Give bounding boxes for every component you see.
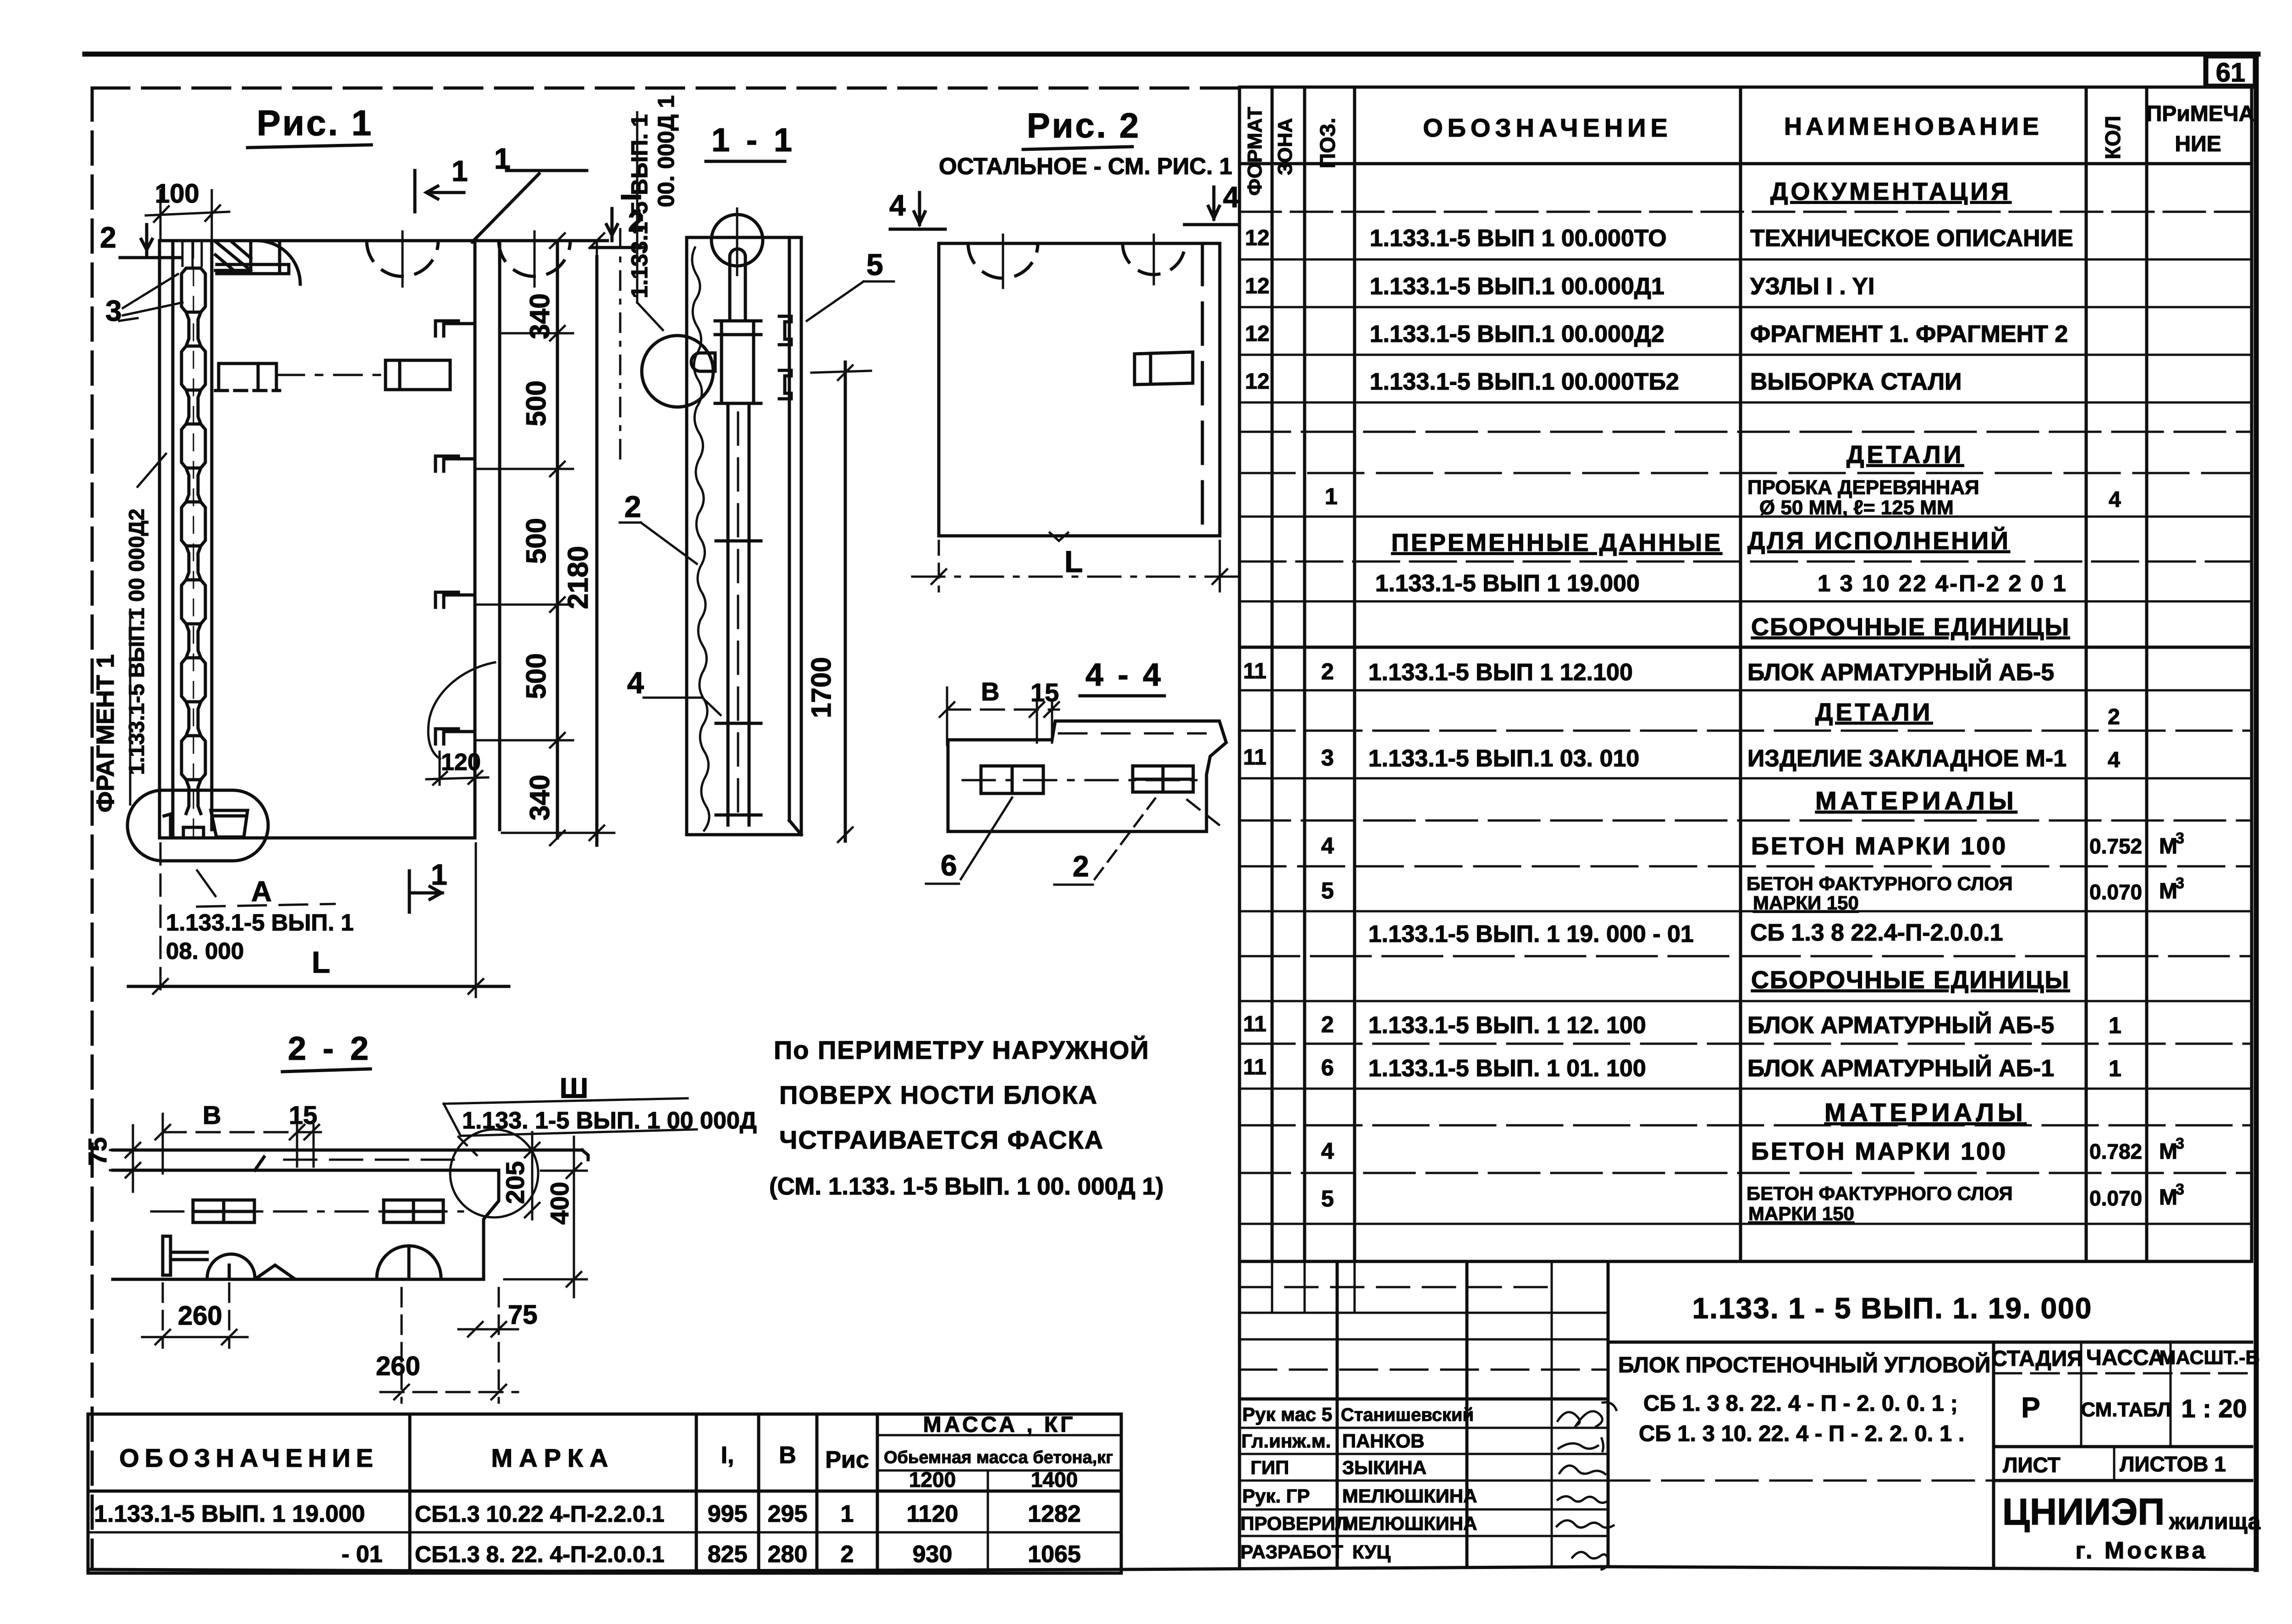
svg-text:г. Москва: г. Москва <box>2076 1537 2208 1564</box>
svg-text:По ПЕРИМЕТРУ НАРУЖНОЙ: По ПЕРИМЕТРУ НАРУЖНОЙ <box>774 1035 1150 1064</box>
svg-text:СБ1.3 8. 22. 4-П-2.0.0.1: СБ1.3 8. 22. 4-П-2.0.0.1 <box>415 1541 664 1567</box>
section 2-2 left anchor <box>163 1236 293 1278</box>
section 4-4 body <box>948 721 1226 831</box>
svg-text:ЗОНА: ЗОНА <box>1274 118 1296 176</box>
svg-text:ПРОВЕРИЛ: ПРОВЕРИЛ <box>1240 1513 1349 1534</box>
svg-text:L: L <box>1064 545 1083 578</box>
fig1 overall 2180 dim <box>502 233 614 845</box>
svg-text:2: 2 <box>1321 659 1334 684</box>
svg-text:СТАДИЯ: СТАДИЯ <box>1991 1347 2083 1371</box>
svg-text:11: 11 <box>1243 745 1267 770</box>
svg-text:4: 4 <box>1321 1138 1334 1164</box>
fig1 section mark 2 left <box>100 221 180 258</box>
svg-text:СБОРОЧНЫЕ ЕДИНИЦЫ: СБОРОЧНЫЕ ЕДИНИЦЫ <box>1751 613 2070 641</box>
svg-text:ФОРМАТ: ФОРМАТ <box>1244 107 1266 196</box>
sheet number box 61 <box>2206 56 2255 88</box>
svg-text:0.782: 0.782 <box>2089 1140 2142 1163</box>
svg-text:КУЦ: КУЦ <box>1352 1541 1391 1563</box>
svg-text:100: 100 <box>155 179 199 209</box>
svg-text:280: 280 <box>768 1541 808 1568</box>
svg-text:12: 12 <box>1245 322 1269 346</box>
fig1 embedded plates mid <box>215 360 450 391</box>
spec table outer frame <box>1240 87 2252 1261</box>
svg-text:ПРОБКА ДЕРЕВЯННАЯ: ПРОБКА ДЕРЕВЯННАЯ <box>1747 476 1979 499</box>
svg-text:ТЕХНИЧЕСКОЕ ОПИСАНИЕ: ТЕХНИЧЕСКОЕ ОПИСАНИЕ <box>1750 225 2073 252</box>
svg-text:1.133.1-5 ВЫП. 1: 1.133.1-5 ВЫП. 1 <box>627 114 652 298</box>
svg-text:БЛОК ПРОСТЕНОЧНЫЙ УГЛОВОЙ: БЛОК ПРОСТЕНОЧНЫЙ УГЛОВОЙ <box>1618 1352 1990 1377</box>
svg-text:МАССА , КГ: МАССА , КГ <box>923 1413 1076 1437</box>
svg-text:1.133.1-5 ВЫП. 1 19.000: 1.133.1-5 ВЫП. 1 19.000 <box>94 1501 365 1527</box>
svg-text:ИЗДЕЛИЕ ЗАКЛАДНОЕ М-1: ИЗДЕЛИЕ ЗАКЛАДНОЕ М-1 <box>1747 745 2066 772</box>
svg-text:500: 500 <box>521 653 551 699</box>
svg-text:11: 11 <box>1243 659 1267 683</box>
section 4-4 title <box>1080 657 1164 696</box>
section 2-2 node circle <box>450 1129 538 1217</box>
svg-text:ПЕРЕМЕННЫЕ ДАННЫЕ: ПЕРЕМЕННЫЕ ДАННЫЕ <box>1391 529 1722 556</box>
fig1 section mark 1 bottom <box>409 858 447 912</box>
svg-text:Рис. 1: Рис. 1 <box>257 103 373 143</box>
fig1 baluster chain (decorative face joints) <box>182 242 205 838</box>
title block left grid <box>1240 1261 1608 1567</box>
svg-text:- 01: - 01 <box>342 1541 383 1568</box>
svg-text:1.133.1-5 ВЫП. 1 19. 000 - 0: 1.133.1-5 ВЫП. 1 19. 000 - 01 <box>1368 921 1694 947</box>
svg-text:1: 1 <box>1325 484 1338 509</box>
svg-text:5: 5 <box>1321 1186 1334 1211</box>
svg-text:М: М <box>2159 1185 2177 1210</box>
section 2-2 node III flag <box>444 1073 757 1155</box>
svg-text:2: 2 <box>100 221 116 254</box>
svg-text:Рук. ГР: Рук. ГР <box>1242 1485 1310 1507</box>
svg-text:ПОЗ.: ПОЗ. <box>1316 118 1339 168</box>
svg-text:МЕЛЮШКИНА: МЕЛЮШКИНА <box>1342 1513 1477 1534</box>
section 1-1 rotated callout text <box>627 95 679 330</box>
svg-text:4: 4 <box>1321 833 1334 859</box>
fig1 block outline <box>160 241 607 838</box>
svg-text:МАРКИ 150: МАРКИ 150 <box>1748 1203 1854 1224</box>
title block staff labels <box>1240 1404 1477 1563</box>
fig2 section mark 4 right <box>1185 181 1240 225</box>
page bottom border <box>89 1567 2256 1571</box>
svg-text:ВЫБОРКА СТАЛИ: ВЫБОРКА СТАЛИ <box>1750 369 1962 395</box>
svg-text:1282: 1282 <box>1028 1501 1081 1527</box>
fig1 section mark 2 right <box>591 206 645 248</box>
section 4-4 dims B and 15 <box>940 677 1059 745</box>
svg-text:В: В <box>203 1101 221 1129</box>
svg-text:4: 4 <box>1223 181 1240 214</box>
svg-text:В: В <box>981 677 999 706</box>
svg-text:400: 400 <box>545 1182 574 1224</box>
svg-text:МАТЕРИАЛЫ: МАТЕРИАЛЫ <box>1824 1098 2027 1127</box>
svg-text:1 - 1: 1 - 1 <box>711 122 796 159</box>
title block big number cell <box>1608 1292 2252 1342</box>
spec table row texts <box>1243 178 2184 1224</box>
svg-text:4: 4 <box>2108 748 2120 772</box>
svg-text:08. 000: 08. 000 <box>166 938 244 964</box>
svg-text:МАРКА: МАРКА <box>491 1443 614 1472</box>
note text block <box>769 1035 1164 1200</box>
svg-text:3: 3 <box>2176 1135 2184 1152</box>
svg-text:340: 340 <box>524 775 555 820</box>
svg-text:295: 295 <box>768 1501 808 1527</box>
svg-text:СБ 1. 3 8. 22. 4 - П - 2. 0.: СБ 1. 3 8. 22. 4 - П - 2. 0. 0. 1 ; <box>1643 1391 1958 1416</box>
fig1 corner detail top <box>215 242 289 274</box>
svg-text:11: 11 <box>1243 1012 1267 1036</box>
svg-text:2: 2 <box>1073 850 1089 883</box>
svg-text:ЧАССА: ЧАССА <box>2086 1346 2164 1370</box>
svg-text:1.133.1-5 ВЫП. 1 12. 100: 1.133.1-5 ВЫП. 1 12. 100 <box>1368 1012 1646 1039</box>
svg-text:1400: 1400 <box>1031 1468 1078 1492</box>
fig1 fragment rotated labels <box>92 454 166 813</box>
signatures <box>1557 1402 1616 1569</box>
svg-text:СБОРОЧНЫЕ ЕДИНИЦЫ: СБОРОЧНЫЕ ЕДИНИЦЫ <box>1751 966 2070 994</box>
bottom table texts <box>94 1413 1113 1568</box>
svg-text:1 : 20: 1 : 20 <box>2181 1394 2247 1423</box>
svg-text:L: L <box>312 945 330 979</box>
section 2-2 right anchor <box>377 1246 441 1278</box>
page top border <box>85 52 2258 57</box>
svg-text:1065: 1065 <box>1028 1541 1081 1568</box>
svg-text:Р: Р <box>2021 1392 2040 1424</box>
page left dashed border <box>91 88 94 1569</box>
fig1 dim L bottom <box>128 843 509 997</box>
fig1 dimension 100 top left <box>146 179 229 238</box>
svg-text:12: 12 <box>1245 369 1269 394</box>
svg-text:2: 2 <box>841 1541 854 1568</box>
svg-text:ЧСТРАИВАЕТСЯ ФАСКА: ЧСТРАИВАЕТСЯ ФАСКА <box>779 1125 1104 1154</box>
fig1 dim chain right (340/500/500/500/340) <box>477 233 573 845</box>
section 2-2 panel profile <box>113 1150 588 1279</box>
section 1-1 inner bars <box>716 403 761 825</box>
svg-text:СМ.ТАБЛ: СМ.ТАБЛ <box>2081 1398 2171 1421</box>
svg-text:2: 2 <box>2108 705 2120 729</box>
svg-text:БЛОК АРМАТУРНЫЙ АБ-1: БЛОК АРМАТУРНЫЙ АБ-1 <box>1747 1055 2054 1082</box>
svg-text:РАЗРАБОТ: РАЗРАБОТ <box>1240 1541 1343 1563</box>
svg-text:1.133.1-5 ВЫП. 1 01. 100: 1.133.1-5 ВЫП. 1 01. 100 <box>1368 1055 1646 1082</box>
svg-text:0.752: 0.752 <box>2089 834 2142 858</box>
svg-text:ЗЫКИНА: ЗЫКИНА <box>1342 1457 1427 1478</box>
svg-text:ЛИСТОВ 1: ЛИСТОВ 1 <box>2120 1452 2226 1476</box>
fig1 section marks 1 top <box>415 142 587 242</box>
svg-text:Рис: Рис <box>825 1447 869 1473</box>
svg-text:3: 3 <box>2176 875 2184 892</box>
svg-text:ЦНИИЭП: ЦНИИЭП <box>2002 1491 2165 1533</box>
svg-text:СБ 1. 3 10. 22. 4 - П - 2. 2.: СБ 1. 3 10. 22. 4 - П - 2. 2. 0. 1 . <box>1639 1421 1965 1446</box>
svg-text:12: 12 <box>1245 226 1269 250</box>
fig1 title <box>248 103 373 148</box>
svg-text:НАИМЕНОВАНИЕ: НАИМЕНОВАНИЕ <box>1784 113 2043 140</box>
svg-text:ДЛЯ ИСПОЛНЕНИЙ: ДЛЯ ИСПОЛНЕНИЙ <box>1747 527 2010 555</box>
svg-text:500: 500 <box>521 380 551 426</box>
bottom table frame <box>88 1414 1121 1573</box>
svg-text:1: 1 <box>452 154 468 187</box>
svg-text:ПРиМЕЧА: ПРиМЕЧА <box>2146 102 2254 126</box>
svg-text:ГИП: ГИП <box>1251 1457 1289 1478</box>
svg-text:ОБОЗНАЧЕНИЕ: ОБОЗНАЧЕНИЕ <box>1423 113 1672 142</box>
svg-text:4: 4 <box>627 666 644 699</box>
svg-text:260: 260 <box>376 1351 420 1381</box>
svg-text:1.133.1-5 ВЫП. 1: 1.133.1-5 ВЫП. 1 <box>166 909 354 936</box>
page right border <box>2254 54 2259 1569</box>
section 2-2 title <box>282 1030 372 1072</box>
fig1 node A oval callout <box>127 790 354 964</box>
svg-text:2: 2 <box>1321 1012 1334 1037</box>
svg-text:1: 1 <box>431 858 447 891</box>
svg-text:ПОВЕРХ НОСТИ БЛОКА: ПОВЕРХ НОСТИ БЛОКА <box>779 1080 1098 1109</box>
section 1-1 label 5 <box>807 248 894 321</box>
svg-text:Ø 50 ММ, ℓ= 125 ММ: Ø 50 ММ, ℓ= 125 ММ <box>1759 496 1954 519</box>
svg-text:МАСШТ.-Б: МАСШТ.-Б <box>2160 1347 2260 1369</box>
svg-text:1.133.1-5 ВЫП.1 00.000Д1: 1.133.1-5 ВЫП.1 00.000Д1 <box>1370 273 1664 300</box>
svg-text:СБ1.3 10.22 4-П-2.2.0.1: СБ1.3 10.22 4-П-2.2.0.1 <box>415 1501 664 1527</box>
svg-text:825: 825 <box>708 1541 748 1568</box>
svg-text:1700: 1700 <box>806 657 837 718</box>
svg-text:ФРАГМЕНТ 1: ФРАГМЕНТ 1 <box>92 655 119 813</box>
svg-text:1200: 1200 <box>909 1468 956 1492</box>
svg-text:Ι,: Ι, <box>721 1442 734 1469</box>
svg-text:М: М <box>2159 1140 2177 1164</box>
svg-text:БЕТОН МАРКИ 100: БЕТОН МАРКИ 100 <box>1751 832 2007 860</box>
svg-text:6: 6 <box>941 849 957 882</box>
svg-text:УЗЛЫ Ι . ΥΙ: УЗЛЫ Ι . ΥΙ <box>1750 273 1874 300</box>
svg-text:12: 12 <box>1245 274 1269 298</box>
fig1 dim 120 at bottom rib <box>426 662 495 785</box>
svg-text:4 - 4: 4 - 4 <box>1085 657 1163 693</box>
svg-text:Обьемная масса бетона,кг: Обьемная масса бетона,кг <box>884 1448 1113 1467</box>
svg-text:4: 4 <box>2109 488 2121 512</box>
fig1 label 3 with leaders <box>105 274 182 327</box>
fig2 dim L <box>912 533 1247 591</box>
section 1-1 label 4 <box>627 666 721 715</box>
svg-text:жилища: жилища <box>2169 1508 2261 1534</box>
section 1-1 node circle <box>642 336 713 407</box>
spec table header texts <box>1244 102 2254 196</box>
section 2-2 dims B 15 75 <box>83 1101 321 1192</box>
svg-text:1.133.1-5 ВЫП.1 00 000Д2: 1.133.1-5 ВЫП.1 00 000Д2 <box>124 508 149 775</box>
svg-text:БЕТОН МАРКИ 100: БЕТОН МАРКИ 100 <box>1751 1138 2007 1165</box>
fig2 title <box>939 106 1232 179</box>
fig2 section mark 4 left <box>889 189 945 229</box>
svg-text:БЛОК АРМАТУРНЫЙ АБ-5: БЛОК АРМАТУРНЫЙ АБ-5 <box>1747 659 2054 686</box>
svg-text:3: 3 <box>2176 830 2184 847</box>
svg-text:МАТЕРИАЛЫ: МАТЕРИАЛЫ <box>1815 786 2017 815</box>
svg-text:260: 260 <box>178 1301 222 1331</box>
svg-text:61: 61 <box>2216 58 2246 88</box>
section 2-2 dims 260 75 205 400 <box>142 1132 587 1403</box>
svg-text:3: 3 <box>1321 745 1334 771</box>
section 1-1 label 2 <box>620 490 697 564</box>
svg-text:340: 340 <box>524 293 555 339</box>
svg-text:1.133.1-5 ВЫП 1 12.100: 1.133.1-5 ВЫП 1 12.100 <box>1368 659 1633 686</box>
svg-text:1.133.1-5 ВЫП.1 03. 010: 1.133.1-5 ВЫП.1 03. 010 <box>1368 745 1639 772</box>
title block outer <box>1240 1261 2252 1567</box>
svg-text:М: М <box>2159 879 2177 903</box>
section 4-4 labels 6 and 2 <box>926 798 1155 885</box>
svg-text:5: 5 <box>1321 878 1334 903</box>
fig1 top arcs (lifting loops hidden) <box>257 231 570 286</box>
svg-text:КОЛ: КОЛ <box>2101 116 2125 160</box>
svg-text:ОСТАЛЬНОЕ - СМ. РИС. 1: ОСТАЛЬНОЕ - СМ. РИС. 1 <box>939 153 1232 179</box>
spec table row lines <box>1240 212 2252 1224</box>
svg-text:ФРАГМЕНТ 1. ФРАГМЕНТ 2: ФРАГМЕНТ 1. ФРАГМЕНТ 2 <box>1750 321 2068 347</box>
svg-text:11: 11 <box>1243 1055 1267 1079</box>
svg-text:(СМ. 1.133. 1-5 ВЫП. 1 00.: (СМ. 1.133. 1-5 ВЫП. 1 00. 000Д 1) <box>769 1173 1164 1200</box>
svg-text:Станишевский: Станишевский <box>1341 1405 1474 1425</box>
svg-text:1: 1 <box>841 1501 854 1527</box>
svg-text:ЛИСТ: ЛИСТ <box>2003 1453 2061 1477</box>
svg-text:ОБОЗНАЧЕНИЕ: ОБОЗНАЧЕНИЕ <box>119 1443 379 1472</box>
svg-text:НИЕ: НИЕ <box>2175 132 2221 156</box>
svg-text:А: А <box>251 876 272 908</box>
svg-text:ПАНКОВ: ПАНКОВ <box>1342 1430 1424 1452</box>
svg-text:1.133.1-5 ВЫП.1 00.000Д2: 1.133.1-5 ВЫП.1 00.000Д2 <box>1370 321 1664 347</box>
svg-text:МЕЛЮШКИНА: МЕЛЮШКИНА <box>1342 1485 1477 1507</box>
section 1-1 title <box>706 122 796 161</box>
svg-text:Гл.инж.м.: Гл.инж.м. <box>1241 1430 1331 1452</box>
title cell: name <box>1608 1352 1994 1481</box>
spec table column lines <box>1272 87 2147 1261</box>
svg-text:75: 75 <box>508 1300 538 1330</box>
section 1-1 lifting loop <box>711 209 763 321</box>
svg-text:1.133.1-5 ВЫП 1 19.000: 1.133.1-5 ВЫП 1 19.000 <box>1375 570 1640 597</box>
svg-text:БЕТОН ФАКТУРНОГО СЛОЯ: БЕТОН ФАКТУРНОГО СЛОЯ <box>1747 873 2013 894</box>
drawing area top dashed border <box>92 87 1240 90</box>
svg-text:2 - 2: 2 - 2 <box>288 1030 372 1067</box>
section 1-1 body outline <box>687 237 801 835</box>
fig2 body <box>939 235 1220 536</box>
section 2-2 embedded plates <box>151 1200 463 1222</box>
svg-text:ДОКУМЕНТАЦИЯ: ДОКУМЕНТАЦИЯ <box>1770 178 2011 205</box>
svg-text:995: 995 <box>708 1501 748 1527</box>
svg-text:3: 3 <box>2176 1181 2184 1198</box>
svg-text:М: М <box>2159 834 2177 859</box>
section 1-1 embed assembly <box>691 316 791 403</box>
svg-text:МАРКИ 150: МАРКИ 150 <box>1753 892 1859 914</box>
svg-text:4: 4 <box>889 189 906 222</box>
svg-text:1: 1 <box>2109 1013 2121 1038</box>
svg-text:БЕТОН ФАКТУРНОГО СЛОЯ: БЕТОН ФАКТУРНОГО СЛОЯ <box>1747 1183 2013 1204</box>
svg-text:СБ 1.3 8 22.4-П-2.0.0.1: СБ 1.3 8 22.4-П-2.0.0.1 <box>1750 919 2003 946</box>
svg-text:1.133. 1 - 5 ВЫП. 1. 19. 0: 1.133. 1 - 5 ВЫП. 1. 19. 000 <box>1692 1292 2093 1325</box>
svg-text:6: 6 <box>1321 1055 1334 1080</box>
svg-text:930: 930 <box>913 1541 953 1568</box>
svg-text:Рук мас 5: Рук мас 5 <box>1242 1404 1332 1425</box>
svg-text:1120: 1120 <box>907 1501 959 1527</box>
svg-text:5: 5 <box>866 248 883 281</box>
svg-text:ДЕТАЛИ: ДЕТАЛИ <box>1815 699 1933 726</box>
svg-text:00. 000Д 1: 00. 000Д 1 <box>653 95 679 207</box>
svg-text:ДЕТАЛИ: ДЕТАЛИ <box>1846 441 1964 468</box>
svg-text:2180: 2180 <box>562 546 594 609</box>
svg-text:3: 3 <box>105 294 122 327</box>
svg-text:75: 75 <box>83 1137 112 1166</box>
fig1 anchor hooks on web <box>435 321 475 744</box>
svg-text:500: 500 <box>521 518 551 564</box>
section 1-1 dim 1700 <box>806 362 871 842</box>
svg-text:0.070: 0.070 <box>2089 880 2142 904</box>
svg-text:Рис. 2: Рис. 2 <box>1027 106 1140 145</box>
stage / mass / scale cells <box>1991 1342 2261 1567</box>
svg-text:0.070: 0.070 <box>2089 1186 2142 1210</box>
svg-text:1.133.1-5 ВЫП.1 00.000ТБ2: 1.133.1-5 ВЫП.1 00.000ТБ2 <box>1370 369 1679 395</box>
svg-text:120: 120 <box>441 749 481 776</box>
axis I mark left of section 1-1 <box>616 193 647 463</box>
svg-text:1 3 10 22 4-П-2 2 0 1: 1 3 10 22 4-П-2 2 0 1 <box>1818 570 2067 596</box>
svg-text:1: 1 <box>2109 1056 2121 1081</box>
svg-text:В: В <box>779 1442 796 1469</box>
svg-text:1.133.1-5 ВЫП 1 00.000ТО: 1.133.1-5 ВЫП 1 00.000ТО <box>1370 225 1667 252</box>
svg-text:205: 205 <box>501 1161 529 1204</box>
svg-text:БЛОК АРМАТУРНЫЙ АБ-5: БЛОК АРМАТУРНЫЙ АБ-5 <box>1747 1012 2054 1039</box>
fig1 corner column inner lines <box>173 241 212 838</box>
svg-text:2: 2 <box>624 490 641 523</box>
